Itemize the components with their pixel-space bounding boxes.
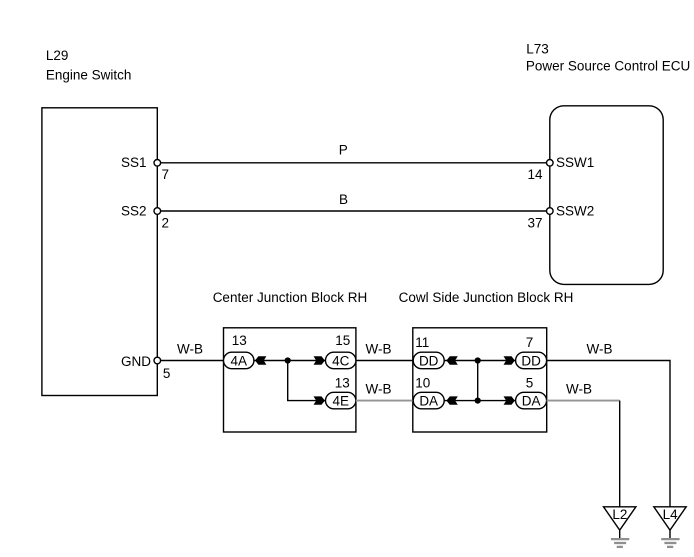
svg-text:P: P [339, 142, 348, 157]
connector 4C pin 15 [326, 333, 356, 369]
ground L2 [604, 507, 636, 547]
wire DA to ground L2 (W-B) gray horizontal [547, 400, 620, 402]
arrow into DD left [446, 356, 457, 364]
svg-text:13: 13 [335, 375, 350, 390]
wire P [157, 162, 549, 164]
svg-text:GND: GND [121, 354, 151, 369]
svg-text:7: 7 [162, 167, 170, 182]
svg-text:W-B: W-B [366, 342, 392, 357]
ground L4 [654, 507, 686, 547]
wire DD to ground L4 (W-B) [547, 361, 670, 507]
svg-text:SS1: SS1 [121, 155, 147, 170]
arrow into 4A [255, 356, 266, 364]
wire branch to 4E [288, 361, 326, 401]
svg-text:7: 7 [526, 335, 534, 350]
junction dot [285, 357, 291, 363]
svg-text:15: 15 [335, 333, 350, 348]
terminal SS1 pin 7 [121, 155, 169, 182]
vertical wire between dots [477, 361, 479, 401]
svg-text:L73: L73 [526, 42, 549, 57]
ECU block L73 [550, 106, 663, 285]
arrow into 4C [314, 356, 325, 364]
svg-text:L2: L2 [612, 507, 627, 522]
junction dot [475, 398, 481, 404]
arrow into DA right [504, 396, 515, 404]
svg-text:Engine Switch: Engine Switch [46, 67, 132, 82]
wire B [157, 210, 549, 212]
svg-text:DD: DD [419, 353, 439, 368]
svg-text:L29: L29 [46, 48, 69, 63]
wire DA to DA [444, 400, 515, 402]
svg-text:Center Junction Block RH: Center Junction Block RH [213, 290, 368, 305]
svg-text:W-B: W-B [587, 342, 613, 357]
svg-text:DD: DD [521, 353, 541, 368]
svg-text:4C: 4C [332, 353, 350, 368]
center junction block RH box [224, 328, 356, 432]
connector DA pin 5 [516, 375, 547, 409]
svg-text:14: 14 [527, 167, 543, 182]
svg-text:37: 37 [527, 216, 542, 231]
svg-text:5: 5 [526, 375, 534, 390]
svg-text:B: B [339, 192, 348, 207]
terminal GND pin 5 [121, 354, 170, 381]
connector 4A pin 13 [224, 333, 254, 369]
connector DD pin 7 [516, 335, 547, 369]
wire 4A to 4C [254, 360, 326, 362]
engine switch block L29 [42, 108, 157, 396]
svg-text:11: 11 [415, 335, 429, 350]
wire GND to 4A (W-B) [157, 360, 223, 362]
arrow into DD right [504, 356, 515, 364]
svg-text:2: 2 [162, 215, 170, 230]
arrow into DA left [446, 396, 457, 404]
svg-text:Power Source Control ECU: Power Source Control ECU [526, 58, 690, 73]
svg-text:L4: L4 [663, 507, 679, 522]
svg-text:5: 5 [163, 366, 171, 381]
wire DD to DD [444, 360, 515, 362]
svg-text:DA: DA [419, 394, 438, 409]
svg-text:4E: 4E [332, 394, 349, 409]
svg-text:Cowl Side Junction Block RH: Cowl Side Junction Block RH [399, 290, 574, 305]
svg-text:SS2: SS2 [121, 203, 147, 218]
terminal SSW2 pin 37 [527, 203, 594, 230]
svg-text:W-B: W-B [566, 382, 592, 397]
junction dot [475, 357, 481, 363]
svg-text:SSW1: SSW1 [556, 155, 594, 170]
connector DD pin 11 [413, 335, 444, 369]
wire down to ground L2 [619, 401, 621, 507]
svg-text:SSW2: SSW2 [556, 203, 594, 218]
arrow into 4E [314, 396, 325, 404]
svg-text:4A: 4A [230, 353, 247, 368]
wire 4C to DD (W-B) [356, 360, 413, 362]
connector 4E pin 13 [326, 375, 356, 409]
svg-text:DA: DA [522, 394, 541, 409]
terminal SS2 pin 2 [121, 203, 169, 230]
cowl side junction block RH box [413, 328, 547, 432]
connector DA pin 10 [413, 375, 444, 409]
svg-text:13: 13 [232, 333, 247, 348]
svg-text:10: 10 [415, 375, 430, 390]
svg-text:W-B: W-B [366, 382, 392, 397]
terminal SSW1 pin 14 [527, 155, 594, 182]
wire 4E to DA (W-B) gray [356, 400, 413, 402]
svg-text:W-B: W-B [177, 342, 203, 357]
